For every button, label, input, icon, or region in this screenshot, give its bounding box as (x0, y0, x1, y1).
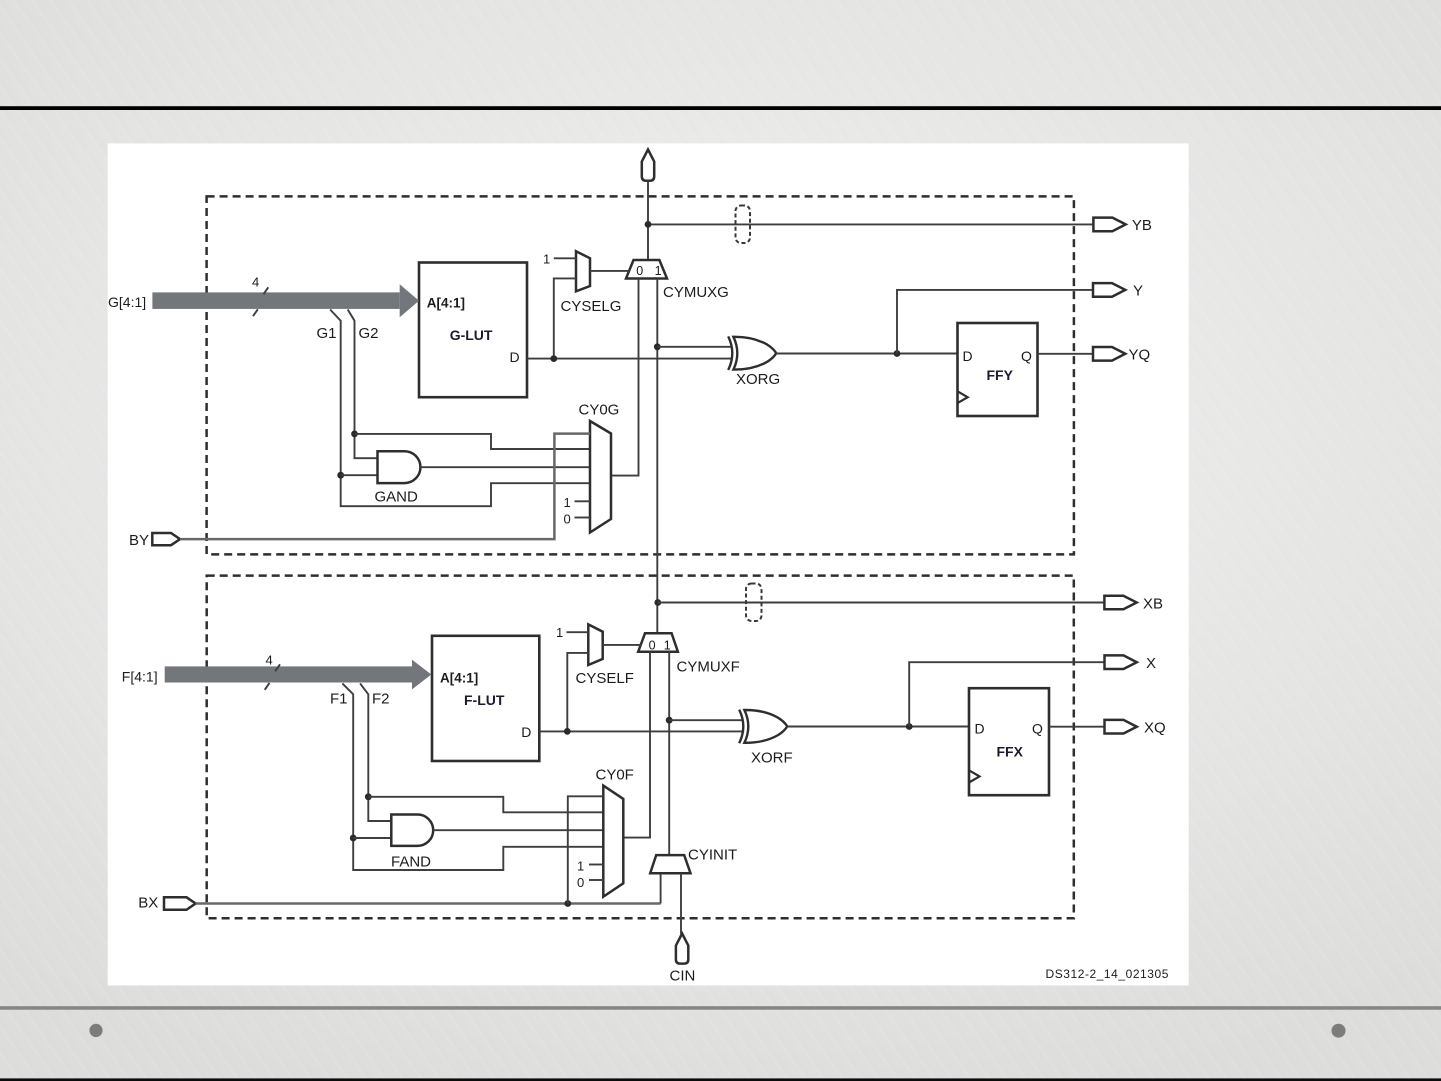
junction XORF out / X (906, 723, 913, 730)
wire G2 tap (bus to GAND upper input) (348, 310, 378, 459)
svg-text:F2: F2 (372, 691, 390, 708)
svg-text:CY0G: CY0G (579, 402, 620, 419)
junction CYINIT out / XORF (666, 717, 673, 724)
wire F1 tap (bus to AND and CY0F) (342, 683, 603, 870)
svg-text:D: D (963, 348, 973, 364)
dashed option bubble on XB wire (746, 584, 762, 622)
wire XB from carry node (658, 602, 1105, 604)
svg-text:F[4:1]: F[4:1] (122, 669, 158, 685)
svg-text:1: 1 (655, 264, 662, 278)
svg-text:D: D (510, 349, 520, 365)
wire carry chain vertical (CYMUXF out to CYMUXG 1-input) (656, 279, 658, 634)
svg-text:1: 1 (543, 252, 550, 267)
svg-text:0: 0 (636, 264, 643, 278)
svg-text:0: 0 (564, 511, 571, 526)
svg-text:1: 1 (564, 495, 571, 510)
wire X tap (909, 662, 1104, 726)
svg-text:G-LUT: G-LUT (450, 327, 493, 343)
wire CYSELF output to CYMUXF select (603, 644, 642, 646)
output port YQ (1093, 347, 1125, 361)
svg-text:XQ: XQ (1144, 720, 1166, 737)
wire F1 to FAND lower input (353, 837, 391, 839)
wire CIN to CYINIT right input (680, 873, 682, 934)
wire G2 to CY0G (355, 434, 591, 449)
wire G-LUT D output to XORG lower input (527, 358, 731, 360)
svg-text:XB: XB (1143, 595, 1163, 612)
svg-text:BX: BX (138, 894, 158, 911)
wire 1 to CY0G (575, 500, 591, 502)
wire COUT to CYMUXG output (647, 181, 649, 260)
wire D node to CYSELF lower input (567, 653, 588, 732)
carry mux CYMUXG (626, 260, 667, 279)
svg-text:XORF: XORF (751, 750, 793, 767)
wire CYMUXG 0-input drop (611, 279, 639, 476)
wire YB from carry node (648, 223, 1093, 225)
flip-flop FFY box (958, 323, 1038, 416)
wire BY to CY0G (180, 434, 590, 539)
svg-text:Q: Q (1032, 720, 1043, 736)
junction G1/GAND (337, 472, 344, 479)
svg-text:1: 1 (556, 625, 563, 640)
svg-text:4: 4 (266, 653, 273, 668)
wire 1 to CYSELF (567, 631, 589, 633)
svg-text:0: 0 (649, 639, 656, 653)
FFX clock chevron (969, 770, 980, 782)
bus width slash ticks (253, 287, 268, 316)
mux CYSELG (576, 251, 590, 291)
svg-text:X: X (1146, 655, 1156, 672)
dashed option bubble on YB wire (736, 206, 751, 244)
wire CYMUXF 0-input drop (623, 652, 650, 838)
wire CYINIT output to CYMUXF 1-input (668, 652, 670, 855)
svg-text:F1: F1 (330, 691, 348, 708)
svg-text:DS312-2_14_021305: DS312-2_14_021305 (1046, 967, 1169, 981)
junction BX/CY0F riser (564, 900, 571, 907)
wire 0 to CY0F (589, 879, 603, 881)
wire GAND output to CY0G (421, 466, 591, 468)
junction F1/FAND (350, 835, 357, 842)
and gate GAND (378, 451, 421, 483)
svg-text:CYSELF: CYSELF (576, 670, 634, 687)
svg-text:F-LUT: F-LUT (464, 692, 505, 708)
bottom edge bar (0, 1078, 1441, 1081)
junction F2/CY0F (365, 793, 372, 800)
svg-text:1: 1 (577, 858, 584, 873)
junction carry/YB (645, 221, 652, 228)
footer bullet right (1332, 1024, 1346, 1038)
output port XQ (1105, 720, 1137, 734)
wire F-LUT D output to XORF lower input (539, 730, 742, 732)
bus F[4:1] arrow (165, 660, 432, 690)
bus G[4:1] arrow (152, 284, 419, 317)
wire BX riser to CY0F (568, 796, 604, 903)
svg-text:1: 1 (664, 639, 671, 653)
dashed slice box (G half) (207, 196, 1074, 554)
svg-text:CIN: CIN (670, 967, 696, 984)
svg-text:YQ: YQ (1129, 347, 1151, 364)
wire CYSELG output to CYMUXG select (590, 270, 630, 272)
wire BX to CYINIT left input (660, 873, 662, 903)
wire XORG output to FFY D (776, 353, 958, 355)
wire FAND output to CY0F (433, 829, 603, 831)
input port BX (164, 897, 196, 910)
mux CY0G (590, 421, 611, 533)
svg-text:FAND: FAND (391, 853, 431, 870)
wire G1 tap (bus to AND and CY0G) (330, 310, 590, 507)
svg-text:XORG: XORG (736, 371, 780, 388)
svg-text:CYMUXF: CYMUXF (677, 659, 740, 676)
wire XORF output to FFX D (787, 726, 969, 728)
svg-text:CYMUXG: CYMUXG (663, 284, 729, 301)
svg-text:4: 4 (252, 275, 259, 290)
junction carry/XORG (654, 343, 661, 350)
CIN terminal bullet (676, 934, 688, 964)
junction XORG out / Y (894, 350, 901, 357)
svg-text:A[4:1]: A[4:1] (440, 671, 478, 686)
junction D node (550, 355, 557, 362)
FFY clock chevron (958, 391, 968, 403)
bus width slash ticks (F) (265, 664, 280, 690)
mux CY0F (603, 786, 623, 897)
wire BX to CYINIT (196, 902, 661, 905)
output port X (1105, 655, 1137, 669)
footer bullet left (89, 1024, 102, 1037)
wire carry to XORG upper input (657, 346, 731, 348)
wire carry-in to XORF upper input (669, 719, 742, 721)
dashed slice box (F half) (207, 576, 1074, 919)
svg-text:D: D (975, 720, 985, 736)
svg-text:YB: YB (1132, 217, 1152, 234)
footer divider line (0, 1006, 1441, 1010)
svg-text:GAND: GAND (375, 488, 419, 505)
input port BY (152, 533, 180, 545)
COUT terminal bullet (642, 150, 654, 181)
wire D node to CYSELG lower input (554, 278, 576, 358)
junction G2/CY0G (351, 431, 358, 438)
wire G1 to GAND lower input (341, 474, 378, 476)
svg-text:D: D (521, 724, 531, 740)
wire F2 to CY0F (368, 797, 603, 813)
wire FFY Q to YQ (1038, 353, 1094, 355)
svg-text:Q: Q (1021, 348, 1032, 364)
svg-text:CYSELG: CYSELG (561, 298, 622, 315)
carry mux CYMUXF (638, 633, 678, 651)
svg-text:CYINIT: CYINIT (688, 846, 737, 863)
and gate FAND (391, 815, 433, 846)
svg-text:G[4:1]: G[4:1] (108, 294, 146, 310)
junction carry/XB (654, 599, 661, 606)
wire 0 to CY0G (575, 517, 591, 519)
output port Y (1093, 283, 1125, 297)
svg-text:FFX: FFX (997, 743, 1024, 759)
top rule (0, 106, 1441, 110)
mux CYINIT (650, 855, 690, 873)
wire 1 to CY0F (589, 864, 603, 866)
svg-text:G2: G2 (359, 325, 379, 342)
wire 1 to CYSELG (554, 257, 576, 259)
svg-text:Y: Y (1133, 283, 1143, 300)
mux CYSELF (588, 624, 602, 665)
output port YB (1093, 218, 1125, 232)
svg-text:0: 0 (577, 875, 584, 890)
LUT G-LUT box (419, 263, 527, 398)
output port XB (1104, 596, 1136, 610)
xor gate XORG (728, 336, 776, 370)
svg-text:BY: BY (129, 532, 149, 549)
wire Y tap (897, 290, 1093, 354)
svg-text:CY0F: CY0F (596, 767, 634, 784)
LUT F-LUT box (432, 636, 539, 761)
flip-flop FFX box (969, 688, 1049, 795)
wire FFX Q to XQ (1049, 726, 1105, 728)
svg-text:A[4:1]: A[4:1] (427, 295, 465, 310)
xor gate XORF (739, 710, 787, 744)
svg-text:FFY: FFY (987, 367, 1014, 383)
white figure panel (108, 143, 1189, 985)
wire F2 tap (bus to FAND upper input) (360, 683, 391, 821)
svg-text:G1: G1 (317, 325, 337, 342)
junction F D node (564, 728, 571, 735)
